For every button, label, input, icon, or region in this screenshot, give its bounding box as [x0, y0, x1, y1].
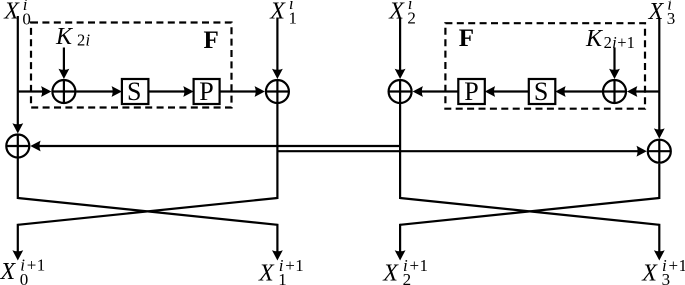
wire P2 output into xor G4 — [413, 86, 459, 97]
svg-text:0: 0 — [22, 9, 31, 28]
S-box S1 — [122, 77, 148, 106]
wire X1 vertical into xor G3 — [272, 18, 283, 80]
wire xor G2 to S2 — [555, 86, 602, 97]
wire crossover diagonal X1 to X0 position — [18, 198, 278, 225]
output label X0^i+1 — [0, 255, 45, 285]
wire key K_2i into xor G1 — [59, 48, 70, 80]
svg-text:S: S — [127, 77, 141, 106]
svg-text:X: X — [641, 260, 658, 285]
wire P1 output into xor G3 — [220, 86, 265, 97]
wire xor G6 down to crossover — [658, 164, 660, 199]
svg-text:X: X — [388, 0, 405, 24]
svg-text:1: 1 — [278, 270, 287, 285]
svg-text:i: i — [86, 31, 91, 50]
wire X0 vertical into xor G5 — [12, 16, 23, 134]
svg-text:3: 3 — [667, 9, 676, 28]
key label K_2i+1 — [585, 26, 635, 52]
wire S1 to P-box P1 — [148, 86, 193, 97]
svg-text:+1: +1 — [617, 33, 635, 52]
svg-text:2: 2 — [403, 270, 412, 285]
xor G4 (X2 xor F2 output) — [389, 80, 412, 103]
svg-text:X: X — [0, 259, 17, 285]
wire X0 branch into F1 xor — [18, 86, 52, 97]
svg-text:2: 2 — [407, 8, 416, 27]
xor G3 (X1 xor F1 output) — [266, 80, 289, 103]
xor G1 (F1 key xor) — [52, 80, 75, 103]
wire output arrow X3^i+1 — [654, 224, 665, 261]
svg-text:2: 2 — [604, 33, 612, 52]
svg-text:1: 1 — [295, 256, 304, 275]
wire output arrow X0^i+1 — [12, 224, 23, 261]
svg-text:P: P — [199, 77, 213, 106]
svg-text:1: 1 — [420, 256, 429, 275]
F-function box F2 (dashed) — [445, 23, 645, 109]
key label K_2i — [55, 24, 91, 50]
F-function box F1 (dashed) — [31, 23, 232, 108]
svg-text:0: 0 — [20, 270, 29, 285]
wire X3 branch into xor G2 — [627, 86, 659, 97]
wire crossover diagonal X0 to X1 position — [18, 198, 278, 225]
svg-text:F: F — [204, 27, 219, 54]
P-box P1 — [194, 77, 220, 106]
wire X2 vertical into xor G4 — [395, 19, 406, 80]
wire key K_2i+1 into xor G2 — [609, 48, 620, 79]
output label X1^i+1 — [258, 256, 304, 285]
input label X0^i — [3, 0, 31, 28]
svg-text:X: X — [258, 260, 275, 285]
P-box P2 — [458, 77, 485, 106]
wire feedback from X1 line into xor G6 — [277, 146, 646, 157]
output label X3^i+1 — [641, 256, 685, 285]
wire output arrow X1^i+1 — [272, 224, 283, 261]
svg-text:X: X — [382, 260, 399, 285]
svg-text:1: 1 — [37, 255, 46, 274]
wire X3 vertical into xor G6 — [654, 19, 665, 139]
wire feedback from X2 line into xor G5 — [30, 141, 400, 152]
wire X2 line down to crossover — [399, 104, 401, 199]
wire S2 to P2 — [485, 86, 529, 97]
svg-text:P: P — [464, 77, 478, 106]
svg-text:X: X — [648, 0, 665, 25]
wire xor G1 to S-box S1 — [76, 86, 122, 97]
output label X2^i+1 — [382, 256, 428, 285]
xor G2 (F2 key xor) — [603, 80, 626, 103]
svg-text:3: 3 — [662, 270, 671, 285]
wire xor G5 down to crossover — [17, 159, 19, 200]
svg-text:K: K — [55, 24, 74, 50]
svg-text:2: 2 — [77, 31, 85, 50]
wire X1 line down to crossover — [276, 104, 278, 199]
S-box S2 — [529, 77, 556, 106]
input label X2^i — [388, 0, 416, 27]
wire output arrow X2^i+1 — [395, 224, 406, 261]
wire crossover diagonal X2 to X3 position — [400, 198, 659, 225]
xor G5 (output xor into X0 line) — [6, 135, 29, 158]
xor G6 (output xor into X3 line) — [648, 140, 671, 163]
svg-text:S: S — [534, 77, 548, 106]
wire crossover diagonal X3 to X2 position — [400, 198, 659, 225]
input label X3^i — [648, 0, 676, 28]
svg-text:F: F — [459, 25, 474, 52]
svg-text:1: 1 — [679, 256, 685, 275]
svg-text:1: 1 — [289, 8, 298, 27]
svg-text:K: K — [585, 26, 604, 52]
input label X1^i — [269, 0, 297, 27]
